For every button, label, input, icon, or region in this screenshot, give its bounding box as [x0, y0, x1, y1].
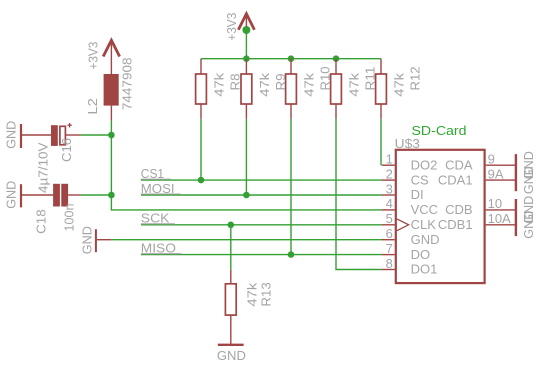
svg-text:47k: 47k: [257, 72, 272, 96]
svg-text:CDB: CDB: [445, 202, 472, 217]
svg-text:47k: 47k: [347, 72, 362, 96]
svg-text:CDA1: CDA1: [438, 172, 473, 187]
svg-text:+3V3: +3V3: [85, 42, 100, 70]
svg-text:GND: GND: [217, 348, 246, 363]
svg-text:9: 9: [488, 152, 495, 167]
svg-text:R8: R8: [228, 74, 243, 91]
svg-text:6: 6: [386, 226, 393, 241]
svg-text:7: 7: [386, 241, 393, 256]
svg-text:47k: 47k: [212, 72, 227, 96]
svg-text:DO1: DO1: [411, 262, 438, 277]
svg-text:9A: 9A: [488, 166, 504, 181]
svg-text:10A: 10A: [488, 211, 511, 226]
svg-text:CS: CS: [411, 172, 429, 187]
svg-text:VCC: VCC: [411, 202, 438, 217]
svg-text:1: 1: [386, 152, 393, 167]
svg-text:R10: R10: [318, 67, 333, 91]
svg-text:DO: DO: [411, 247, 431, 262]
svg-text:R12: R12: [408, 67, 423, 91]
svg-text:+3V3: +3V3: [224, 13, 239, 41]
svg-text:CLK: CLK: [411, 217, 437, 232]
svg-text:GND: GND: [521, 166, 536, 194]
svg-text:GND: GND: [411, 232, 440, 247]
svg-text:GND: GND: [521, 211, 536, 239]
svg-text:10: 10: [488, 196, 502, 211]
svg-text:R11: R11: [363, 67, 378, 91]
svg-text:GND: GND: [80, 226, 95, 254]
svg-text:DO2: DO2: [411, 157, 438, 172]
svg-text:4: 4: [386, 196, 393, 211]
svg-text:2: 2: [386, 166, 393, 181]
svg-text:5: 5: [386, 211, 393, 226]
svg-text:GND: GND: [4, 121, 19, 149]
svg-text:DI: DI: [411, 187, 424, 202]
svg-text:47k: 47k: [245, 282, 260, 306]
svg-text:CDB1: CDB1: [438, 217, 473, 232]
svg-text:47k: 47k: [302, 72, 317, 96]
svg-text:SD-Card: SD-Card: [412, 123, 467, 138]
svg-text:4µ7/10V: 4µ7/10V: [35, 142, 50, 193]
svg-text:R9: R9: [273, 74, 288, 91]
svg-text:C18: C18: [33, 209, 48, 234]
svg-text:CDA: CDA: [445, 157, 473, 172]
svg-text:R13: R13: [259, 282, 274, 306]
svg-text:C16: C16: [59, 138, 74, 162]
svg-text:3: 3: [386, 181, 393, 196]
svg-text:100n: 100n: [61, 204, 76, 232]
svg-text:L2: L2: [85, 98, 100, 115]
svg-text:47k: 47k: [392, 72, 407, 96]
svg-text:7447908: 7447908: [119, 58, 134, 111]
svg-text:8: 8: [386, 256, 393, 271]
svg-text:U$3: U$3: [395, 136, 420, 151]
svg-text:GND: GND: [4, 181, 19, 209]
